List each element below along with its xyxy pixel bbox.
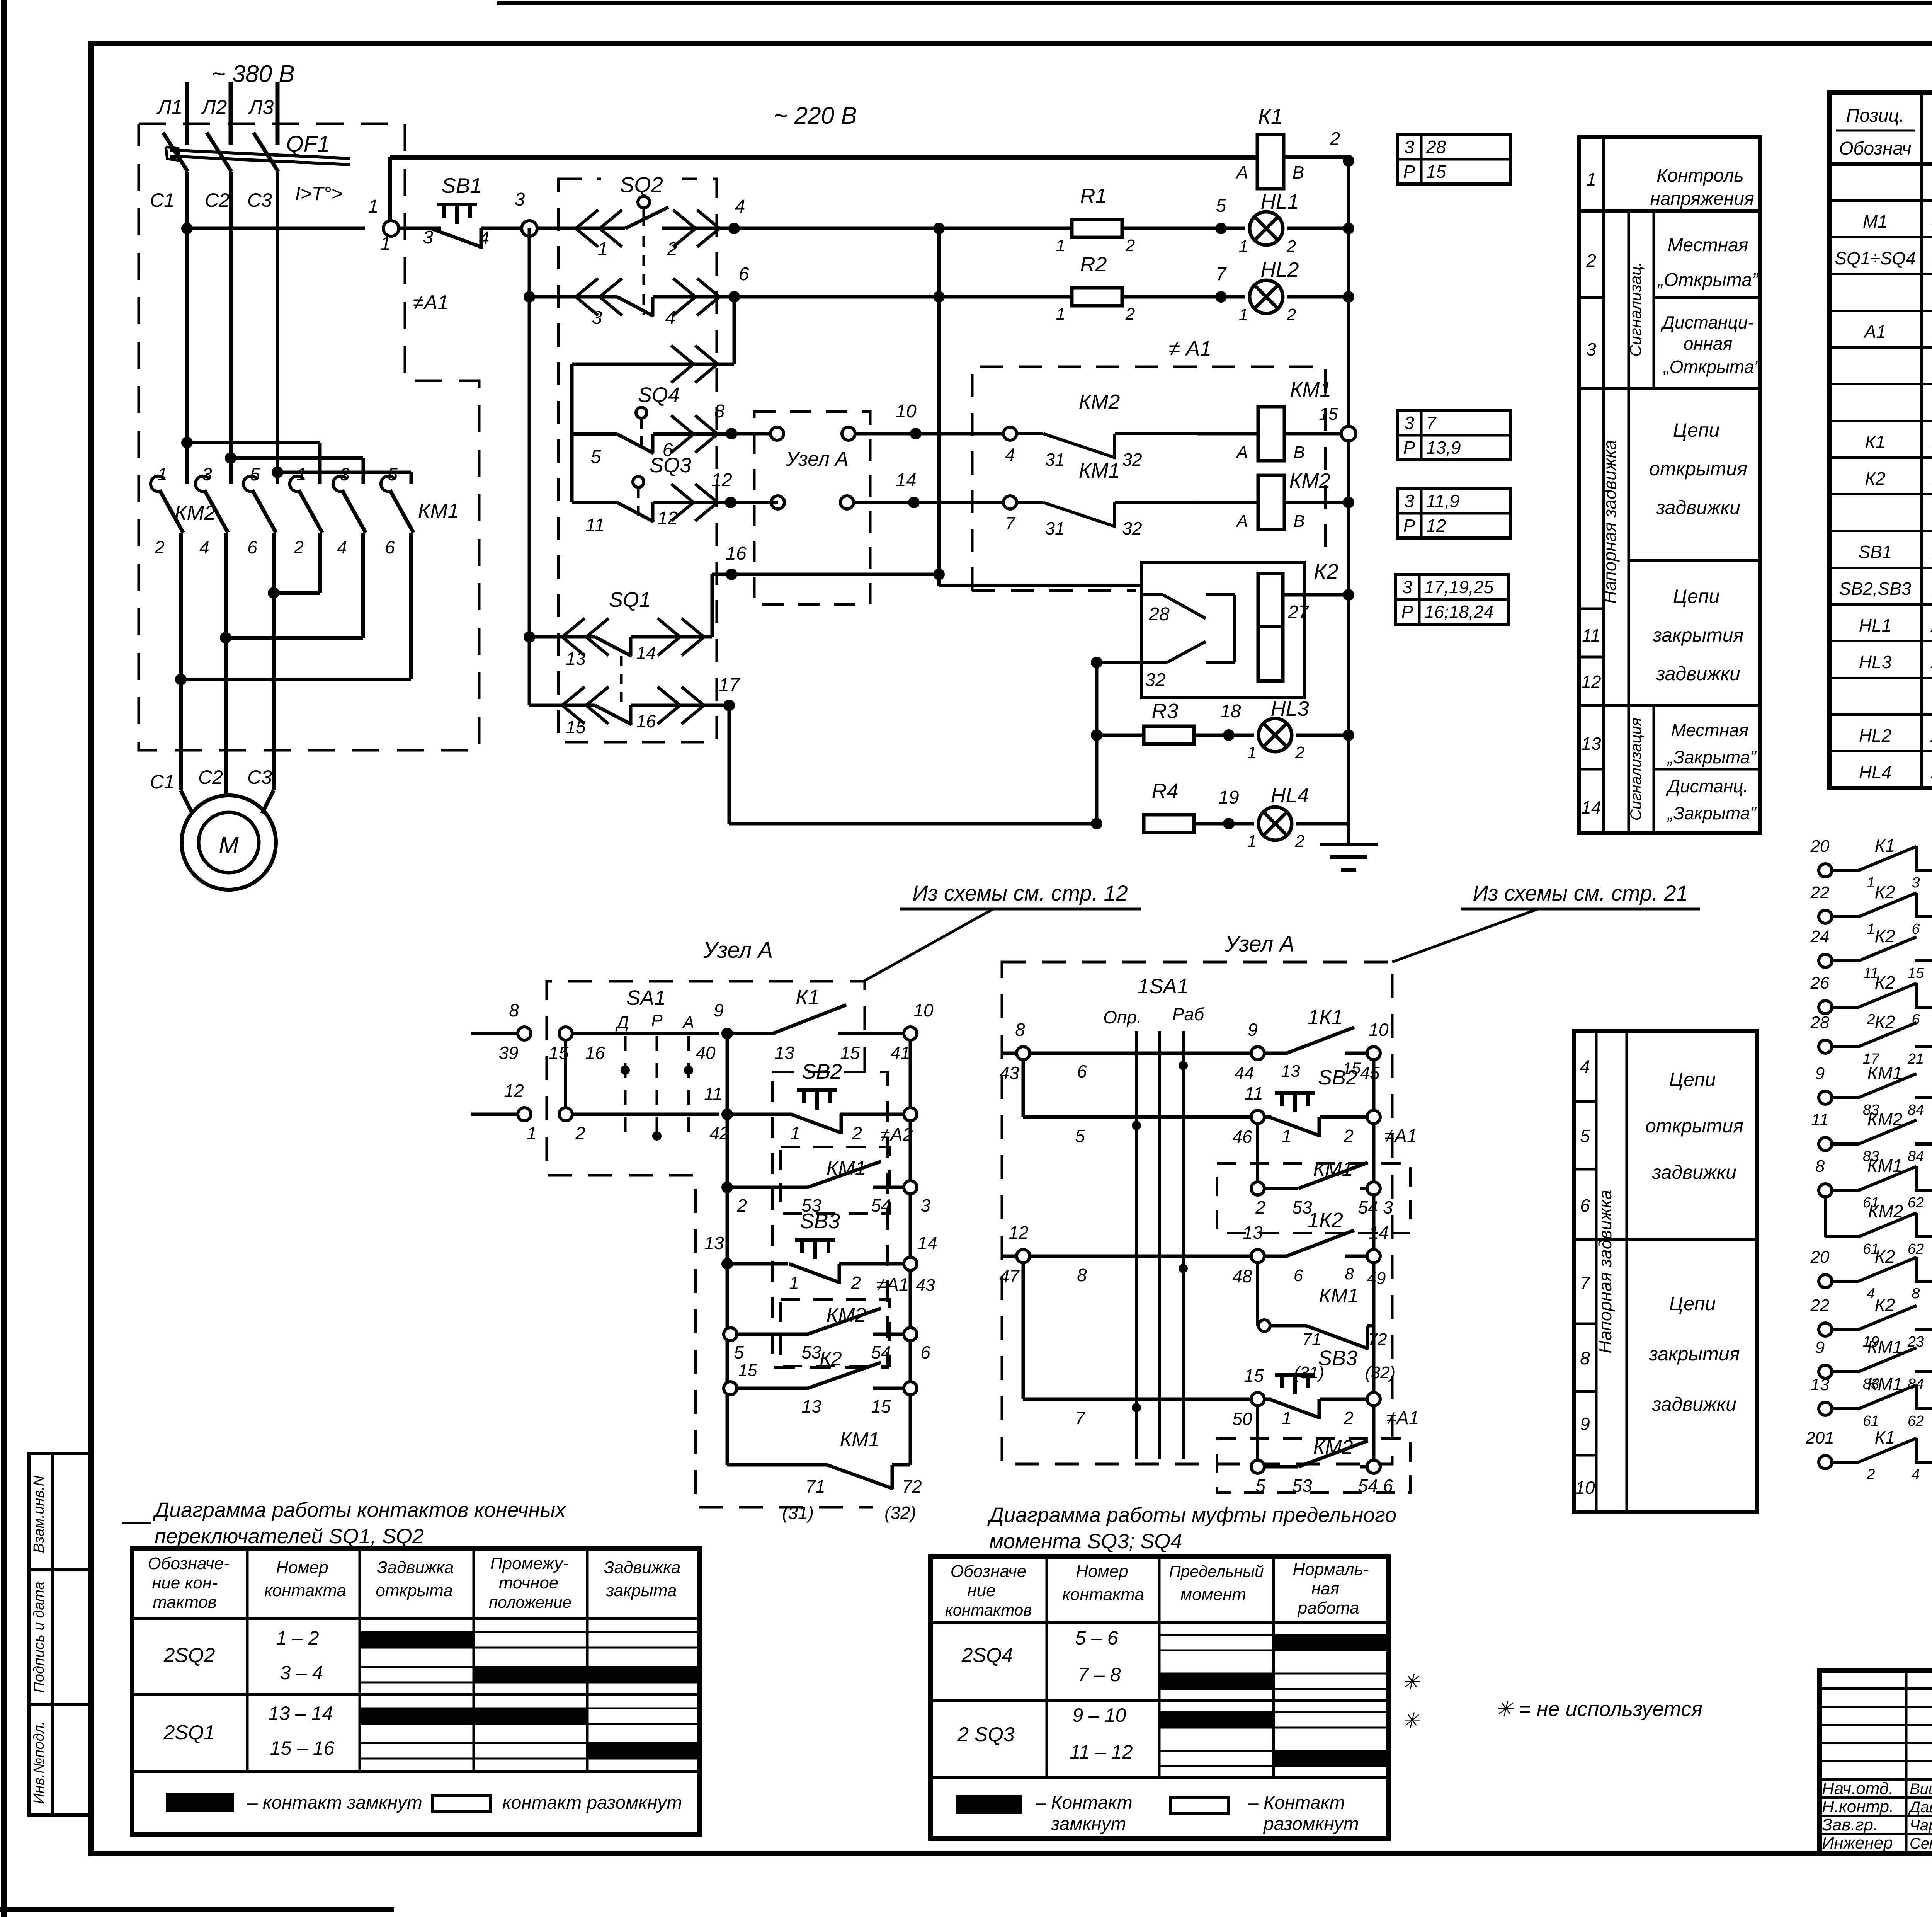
svg-text:4: 4 [479, 228, 490, 249]
svg-text:1: 1 [1056, 305, 1065, 323]
wire-tag 3/7 P/13.9 [1397, 410, 1510, 460]
svg-text:1: 1 [790, 1123, 800, 1143]
svg-text:31: 31 [1045, 449, 1065, 470]
wire motor feed 2 [224, 638, 228, 796]
svg-text:16: 16 [726, 543, 747, 564]
svg-text:1: 1 [1282, 1408, 1292, 1428]
svg-text:Л1: Л1 [156, 96, 183, 119]
svg-text:КМ1: КМ1 [1290, 378, 1332, 401]
node 19 [1194, 822, 1254, 826]
svg-text:62: 62 [1908, 1195, 1924, 1211]
svg-text:Местная: Местная [1668, 235, 1748, 255]
svg-text:– Контакт: – Контакт [1248, 1793, 1345, 1813]
svg-text:11: 11 [1811, 1110, 1829, 1129]
svg-text:Давлианидзе: Давлианидзе [1908, 1799, 1932, 1816]
contact К2 4-8 [1819, 1275, 1832, 1288]
relay coil KM2 (row12) [1198, 501, 1258, 504]
lamp HL4 [1259, 807, 1292, 840]
svg-text:9: 9 [714, 1000, 724, 1020]
node 7 [1122, 295, 1245, 299]
wire SB1 to node 3 [481, 227, 522, 230]
limit switch SQ1 contact 13-14 [524, 631, 535, 643]
supply line Л1 [185, 82, 189, 145]
svg-text:15: 15 [549, 1043, 569, 1063]
svg-text:КМ1: КМ1 [1867, 1156, 1902, 1176]
svg-text:SB3: SB3 [800, 1209, 840, 1233]
svg-text:8: 8 [714, 401, 725, 422]
svg-text:момент: момент [1180, 1585, 1246, 1604]
svg-text:6: 6 [1912, 921, 1920, 937]
svg-text:1: 1 [381, 233, 391, 254]
svg-text:А: А [1235, 443, 1248, 462]
svg-text:48: 48 [1232, 1266, 1252, 1286]
svg-text:1: 1 [157, 464, 167, 484]
node 12 [725, 497, 736, 508]
svg-text:2: 2 [1330, 129, 1340, 149]
svg-text:HL2: HL2 [1859, 725, 1891, 746]
right bus vertical [1347, 157, 1350, 827]
svg-text:53: 53 [1292, 1476, 1312, 1496]
node 18 [1194, 734, 1254, 737]
svg-text:К2: К2 [1875, 1295, 1895, 1315]
svg-text:Диаграмма работы муфты предель: Диаграмма работы муфты предельного [987, 1503, 1396, 1527]
node 10 [910, 428, 922, 439]
svg-text:9 – 10: 9 – 10 [1072, 1704, 1126, 1726]
svg-text:2: 2 [852, 1123, 862, 1143]
svg-text:Р: Р [1403, 438, 1415, 458]
svg-text:КМ2: КМ2 [1313, 1436, 1353, 1459]
node 17 [723, 700, 735, 711]
auxiliary contact KM1 71-72 (detail left) [727, 1463, 827, 1467]
svg-text:Промежу-: Промежу- [490, 1554, 568, 1573]
svg-text:К1: К1 [1258, 104, 1283, 128]
node 8 [726, 428, 737, 439]
terminal 11/46 [1251, 1110, 1264, 1124]
svg-text:2: 2 [1125, 236, 1135, 255]
wire uzelA to node 10 [855, 432, 916, 436]
contact К2 17-21 [1819, 1040, 1832, 1053]
parts list table [1829, 93, 1932, 788]
svg-text:12: 12 [657, 508, 678, 529]
svg-text:84: 84 [1908, 1102, 1924, 1118]
relay K2 contact 28 [1142, 593, 1163, 596]
svg-text:К2: К2 [1875, 882, 1895, 902]
svg-text:Р: Р [1401, 602, 1413, 622]
svg-text:14: 14 [896, 470, 916, 490]
svg-text:Задвижка: Задвижка [377, 1558, 454, 1577]
svg-text:9: 9 [1248, 1020, 1258, 1040]
svg-text:Н.контр.: Н.контр. [1822, 1797, 1894, 1816]
wire phase3 to KM1 pole3 [277, 471, 411, 474]
svg-text:4: 4 [337, 537, 347, 557]
svg-text:46: 46 [1232, 1127, 1252, 1147]
svg-text:Р: Р [1403, 162, 1415, 182]
svg-text:53: 53 [801, 1342, 821, 1362]
svg-text:открыта: открыта [376, 1581, 452, 1600]
svg-text:32: 32 [1122, 449, 1142, 470]
terminal 9/44 [1251, 1047, 1264, 1060]
svg-text:задвижки: задвижки [1652, 1161, 1736, 1183]
dashed enclosure SQ2 switch block [558, 179, 717, 742]
svg-text:Из схемы см. стр. 12: Из схемы см. стр. 12 [912, 881, 1128, 905]
svg-text:8: 8 [509, 1000, 519, 1020]
contact К1 1-3 [1819, 864, 1832, 877]
dashed enclosure block A1 (cabinet) [139, 124, 479, 750]
svg-text:4: 4 [1867, 1285, 1875, 1302]
supply line Л3 [276, 82, 280, 145]
svg-text:≠А1: ≠А1 [413, 291, 449, 314]
svg-text:„Закрыта”: „Закрыта” [1667, 803, 1757, 823]
svg-text:Диаграмма работы контактов кон: Диаграмма работы контактов конечных [153, 1498, 566, 1522]
svg-text:✳ = не используется: ✳ = не используется [1495, 1697, 1702, 1721]
svg-text:7: 7 [1005, 513, 1015, 533]
svg-text:КМ1: КМ1 [840, 1428, 880, 1451]
svg-text:8: 8 [1345, 1265, 1354, 1283]
svg-text:1: 1 [1867, 875, 1875, 891]
function table (napornaya zadvizhka upper) [1579, 137, 1760, 833]
pushbutton SB3 (detail right) [1264, 1398, 1271, 1401]
svg-text:15 – 16: 15 – 16 [270, 1737, 335, 1759]
svg-text:2: 2 [1866, 1011, 1875, 1028]
wire node16 to K2 feed bus [731, 573, 939, 576]
svg-text:1 – 2: 1 – 2 [276, 1627, 319, 1649]
svg-text:13 – 14: 13 – 14 [269, 1702, 333, 1724]
svg-text:1: 1 [1586, 169, 1596, 189]
svg-text:Цепи: Цепи [1669, 1069, 1716, 1090]
svg-text:32: 32 [1145, 670, 1165, 690]
svg-text:13: 13 [1581, 734, 1601, 754]
state bars 2SQ4 7-8 [1159, 1673, 1388, 1675]
wire K1 to node 2 [1284, 155, 1349, 159]
feed to SB3 row (right detail) [1022, 1263, 1025, 1399]
svg-text:31: 31 [1045, 518, 1065, 538]
svg-text:HL3: HL3 [1270, 697, 1309, 720]
svg-text:Обозначе-: Обозначе- [148, 1554, 229, 1573]
link 46-2 [1256, 1124, 1259, 1188]
svg-text:К2: К2 [820, 1348, 842, 1369]
svg-text:Раб: Раб [1172, 1004, 1205, 1024]
svg-text:HL4: HL4 [1270, 784, 1309, 807]
svg-text:~ 220 В: ~ 220 В [774, 102, 857, 129]
svg-text:КМ1: КМ1 [827, 1157, 866, 1180]
svg-text:Узел А: Узел А [786, 448, 849, 470]
contact К2 19-23 [1819, 1323, 1832, 1336]
svg-text:К1: К1 [1875, 836, 1895, 856]
auxiliary contact KM1 53-54 (right) [1251, 1182, 1264, 1195]
svg-text:Обозначе: Обозначе [951, 1562, 1026, 1581]
svg-text:54: 54 [1358, 1476, 1378, 1496]
svg-text:9: 9 [1580, 1414, 1590, 1434]
function table (napornaya zadvizhka lower) [1574, 1031, 1757, 1512]
svg-text:2: 2 [1343, 1126, 1354, 1146]
motor M1 [182, 795, 276, 890]
wire into motor [181, 790, 192, 814]
svg-text:5 – 6: 5 – 6 [1075, 1627, 1118, 1649]
state bars 2SQ3 11-12 [1159, 1750, 1388, 1752]
wire-tag 3/28 P/15 [1397, 134, 1510, 184]
svg-text:тактов: тактов [153, 1593, 217, 1612]
svg-text:2: 2 [293, 537, 304, 557]
svg-text:Узел А: Узел А [1225, 931, 1295, 957]
title block [1820, 1670, 1932, 1854]
svg-text:контактов: контактов [945, 1601, 1032, 1619]
wire node1 to SB1 [399, 227, 441, 230]
svg-text:1: 1 [1239, 305, 1248, 324]
svg-text:13: 13 [1243, 1222, 1263, 1243]
svg-text:11 – 12: 11 – 12 [1070, 1741, 1133, 1763]
svg-text:Номер: Номер [276, 1558, 328, 1577]
svg-text:SВ3: SВ3 [1318, 1347, 1357, 1370]
branch vertical to HL3/HL4 [1095, 662, 1099, 824]
legend closed contact (middle) [956, 1795, 1022, 1814]
svg-text:9: 9 [1815, 1338, 1825, 1357]
svg-text:2: 2 [1125, 305, 1135, 323]
svg-text:SА1: SА1 [626, 986, 666, 1010]
wire KM crossover A (poles 6-2) [272, 556, 276, 593]
svg-text:К2: К2 [1865, 468, 1886, 489]
svg-text:HL1: HL1 [1260, 190, 1299, 213]
svg-text:С2: С2 [198, 766, 223, 788]
supply line Л2 [229, 82, 233, 145]
svg-text:1: 1 [368, 196, 379, 217]
svg-text:2: 2 [1255, 1197, 1265, 1217]
svg-text:1: 1 [527, 1123, 537, 1143]
terminal 12/47 [1002, 1255, 1016, 1258]
svg-text:А: А [1235, 512, 1248, 531]
svg-text:16: 16 [636, 711, 656, 731]
svg-text:Инв.№подл.: Инв.№подл. [31, 1721, 47, 1804]
svg-text:15: 15 [1319, 405, 1338, 424]
svg-text:Зав.гр.: Зав.гр. [1822, 1815, 1878, 1834]
resistor R3 [1097, 734, 1144, 737]
svg-text:Сигнализация: Сигнализация [1628, 718, 1645, 821]
svg-text:С3: С3 [247, 189, 272, 211]
svg-text:201: 201 [1805, 1428, 1834, 1447]
svg-text:SВ2,SВ3: SВ2,SВ3 [1839, 579, 1912, 599]
svg-text:SQ1: SQ1 [609, 588, 651, 611]
svg-text:20: 20 [1810, 1248, 1830, 1267]
svg-text:54: 54 [871, 1195, 891, 1216]
relay coil K1 [1257, 134, 1284, 189]
svg-text:точное: точное [499, 1573, 559, 1592]
svg-text:54: 54 [871, 1342, 891, 1362]
relay K2 contact 32 [1167, 642, 1206, 662]
left margin stamp boxes [29, 1453, 91, 1815]
svg-text:9: 9 [1815, 1064, 1825, 1083]
feed bus from rows1-2 to relay K2 [937, 228, 941, 586]
svg-text:R2: R2 [1080, 253, 1107, 276]
dashed box A1 around KM2 53-54 [781, 1299, 889, 1366]
svg-text:Подпись и дата: Подпись и дата [31, 1582, 47, 1692]
right rail of right detail [1372, 1060, 1376, 1467]
svg-text:2: 2 [1295, 743, 1304, 762]
svg-text:КМ1: КМ1 [1867, 1063, 1902, 1083]
svg-text:2: 2 [1286, 237, 1296, 256]
contact state table SQ1/SQ2 [132, 1549, 700, 1834]
lamp HL2 [1250, 280, 1283, 313]
dashed box around A1-block contacts (left detail) [772, 1072, 888, 1367]
svg-text:3: 3 [592, 308, 602, 328]
svg-text:22: 22 [1810, 883, 1830, 902]
svg-text:„Открыта”: „Открыта” [1657, 270, 1759, 290]
svg-text:2 SQ3: 2 SQ3 [957, 1723, 1014, 1746]
scan edge left [1, 0, 7, 1917]
svg-text:5: 5 [1580, 1126, 1590, 1146]
terminal 8/43 (right detail) [1002, 1052, 1016, 1055]
wire node3 down feed [528, 228, 531, 705]
wire SQ1-1 up to node 16 [711, 574, 714, 637]
svg-text:SB2: SB2 [802, 1059, 842, 1083]
svg-text:Задвижка: Задвижка [604, 1558, 681, 1577]
terminal 4 [1003, 427, 1017, 440]
contact КМ1 83-84 [1819, 1365, 1832, 1378]
svg-text:Д: Д [615, 1013, 629, 1032]
svg-text:3: 3 [1404, 413, 1414, 433]
svg-text:HL4: HL4 [1859, 762, 1891, 782]
svg-text:К2: К2 [1875, 972, 1895, 993]
svg-text:11: 11 [1582, 625, 1600, 645]
svg-text:10: 10 [1575, 1478, 1595, 1498]
svg-text:2: 2 [575, 1123, 585, 1143]
dashed outline uzel A right detail [1002, 962, 1392, 1464]
top border line [497, 1, 1932, 5]
KM contact pole 3 [243, 476, 257, 492]
ground symbol [1347, 827, 1350, 844]
svg-text:открытия: открытия [1645, 1115, 1743, 1137]
svg-text:4: 4 [1580, 1056, 1590, 1076]
svg-text:1К1: 1К1 [1308, 1006, 1343, 1029]
svg-text:ная: ная [1311, 1579, 1339, 1598]
terminal 15/50 [1251, 1393, 1264, 1406]
contact К2 1-6 [1819, 910, 1832, 923]
svg-text:17,19,25: 17,19,25 [1424, 577, 1493, 597]
terminal pair lower (12/1/2) [471, 1113, 517, 1116]
svg-text:С3: С3 [247, 766, 272, 788]
svg-text:К2: К2 [1875, 1012, 1895, 1032]
svg-text:2: 2 [1586, 250, 1596, 271]
wire node17 to lamp branch [728, 705, 731, 824]
svg-text:1SА1: 1SА1 [1138, 975, 1189, 998]
auxiliary contact KM1 53-54 (detail left) [721, 1182, 733, 1193]
svg-text:2: 2 [1866, 1466, 1875, 1483]
svg-text:13: 13 [704, 1233, 724, 1253]
link 50-5 [1256, 1406, 1259, 1467]
svg-text:Инженер: Инженер [1822, 1834, 1893, 1852]
svg-text:28: 28 [1810, 1013, 1830, 1032]
svg-text:HL2: HL2 [1260, 258, 1299, 281]
terminal 15 on bus [1284, 432, 1342, 436]
svg-text:КМ1: КМ1 [1313, 1158, 1353, 1180]
svg-text:задвижки: задвижки [1652, 1393, 1736, 1415]
limit switch SQ1 contact 15-16 [529, 704, 595, 707]
svg-text:24: 24 [1810, 927, 1830, 946]
wire uzelA to node 14 [854, 501, 914, 504]
contact К2 11-15 [1819, 954, 1832, 967]
svg-text:13: 13 [774, 1043, 794, 1063]
svg-text:6: 6 [1383, 1476, 1393, 1496]
svg-text:3: 3 [1586, 339, 1596, 359]
auxiliary contact KM1 71-72 (right) [1256, 1263, 1259, 1326]
relay contact K1 13-15 (detail) [727, 1032, 773, 1035]
svg-text:2: 2 [1295, 832, 1304, 851]
lamp HL1 [1250, 212, 1283, 245]
svg-text:1: 1 [296, 464, 306, 484]
dashed box around KM2 53-54 (right) [1217, 1439, 1410, 1493]
svg-text:2: 2 [1343, 1408, 1354, 1428]
svg-text:1: 1 [789, 1273, 799, 1293]
wire phase outputs below QF1 [185, 172, 189, 484]
svg-text:Чаруева: Чаруева [1910, 1817, 1932, 1834]
svg-text:11: 11 [1245, 1083, 1263, 1103]
svg-text:32: 32 [1122, 518, 1142, 538]
node 10 right rail top [904, 1027, 917, 1040]
relay K2 internal link [1233, 595, 1236, 662]
svg-text:закрыта: закрыта [606, 1581, 677, 1600]
svg-text:Из схемы см. стр. 21: Из схемы см. стр. 21 [1473, 881, 1688, 905]
svg-text:6: 6 [385, 537, 395, 557]
node 5 [1122, 227, 1245, 230]
svg-text:КМ1: КМ1 [418, 499, 459, 523]
svg-text:11: 11 [585, 515, 605, 536]
svg-text:11,9: 11,9 [1426, 491, 1459, 511]
wire node12 row to uzel A [731, 501, 778, 504]
svg-text:В: В [1293, 162, 1304, 182]
svg-text:3: 3 [1402, 577, 1412, 597]
svg-text:3: 3 [340, 464, 350, 484]
svg-text:Нач.отд.: Нач.отд. [1822, 1779, 1893, 1798]
svg-text:4: 4 [1005, 444, 1015, 465]
svg-text:14: 14 [636, 643, 656, 663]
legend closed/open contact [166, 1793, 234, 1812]
svg-text:21: 21 [1907, 1051, 1924, 1067]
KM contact pole 2 [196, 476, 209, 492]
terminal pair upper (8/39/15) [471, 1032, 517, 1035]
resistor R4 [1144, 815, 1194, 833]
svg-text:12: 12 [711, 470, 732, 490]
svg-text:6: 6 [247, 537, 257, 557]
state bars 2SQ1 13-14 [360, 1708, 700, 1709]
wire motor feed 3 [272, 593, 276, 790]
svg-text:41: 41 [890, 1043, 910, 1063]
svg-text:84: 84 [1908, 1148, 1924, 1165]
svg-text:А1: А1 [1863, 322, 1886, 342]
svg-text:Семёнова: Семёнова [1910, 1835, 1932, 1852]
svg-text:Взам.инв.N: Взам.инв.N [31, 1475, 47, 1553]
svg-text:≠ А1: ≠ А1 [1169, 337, 1212, 360]
svg-text:28: 28 [1148, 604, 1170, 625]
relay coil KM1 (row8) [1198, 432, 1258, 436]
svg-text:47: 47 [999, 1266, 1020, 1286]
svg-text:Контроль: Контроль [1656, 165, 1744, 186]
svg-text:15: 15 [566, 717, 586, 737]
dashed box A2 around KM1 53-54 [781, 1147, 889, 1214]
svg-text:SВ1: SВ1 [1859, 542, 1892, 562]
svg-text:замкнут: замкнут [1051, 1814, 1126, 1834]
svg-text:15: 15 [871, 1396, 891, 1416]
svg-text:13: 13 [801, 1396, 821, 1416]
svg-text:6: 6 [1077, 1061, 1087, 1081]
svg-text:М: М [219, 832, 239, 859]
svg-text:– контакт замкнут: – контакт замкнут [247, 1793, 422, 1813]
svg-text:„Закрыта”: „Закрыта” [1667, 747, 1757, 767]
svg-text:15: 15 [1426, 162, 1446, 182]
svg-text:20: 20 [1810, 837, 1830, 856]
contact КМ1 61-62 [1819, 1402, 1832, 1415]
dashed enclosure A1 around KM interlocks [972, 367, 1325, 591]
svg-text:8: 8 [1815, 1157, 1825, 1176]
svg-text:61: 61 [1863, 1413, 1879, 1429]
svg-text:С1: С1 [150, 771, 175, 793]
